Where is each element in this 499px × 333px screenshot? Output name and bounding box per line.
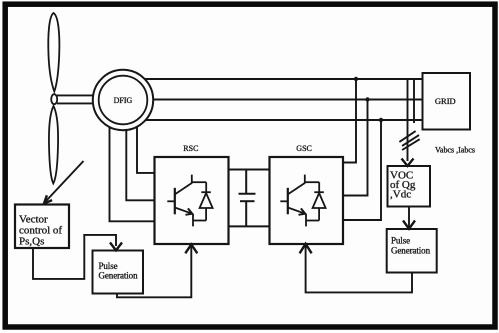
svg-text:,Vdc: ,Vdc (390, 189, 411, 201)
svg-text:Pulse: Pulse (99, 261, 118, 271)
svg-text:Generation: Generation (391, 246, 431, 256)
svg-text:DFIG: DFIG (114, 96, 133, 105)
svg-text:Generation: Generation (99, 271, 139, 281)
svg-text:GRID: GRID (435, 96, 456, 106)
svg-text:Vabcs ,Iabcs: Vabcs ,Iabcs (435, 146, 475, 155)
svg-text:GSC: GSC (296, 144, 312, 153)
svg-text:RSC: RSC (183, 144, 198, 153)
svg-text:Pulse: Pulse (391, 235, 410, 245)
svg-text:Ps,Qs: Ps,Qs (19, 236, 44, 248)
